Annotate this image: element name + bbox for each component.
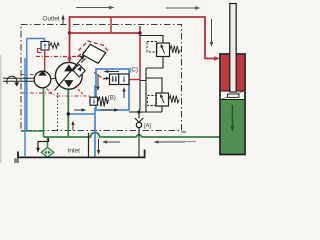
wire: arrow left inside box [104, 70, 120, 73]
wire: suction/inlet main line (green) [44, 133, 220, 138]
wire: down arrow to tank [97, 139, 100, 155]
wire: blue into valve B [94, 85, 96, 98]
node: outlet up arrow [61, 15, 64, 25]
wire: red tap below valve V1 [44, 50, 46, 72]
node: junction x140 [138, 31, 141, 34]
svg-text:Inlet: Inlet [68, 147, 81, 154]
wire: red arrow into cylinder cap end [214, 56, 220, 60]
wire: arrow down inside box [96, 74, 99, 91]
pump P2 (charge pump) [34, 70, 51, 88]
svg-text:(A): (A) [144, 124, 152, 130]
wire: blue charge feed y114 [68, 113, 95, 115]
svg-text:(C): (C) [130, 68, 138, 74]
wire: drain stub to tank [88, 133, 90, 157]
wire: down flow arrow near cylinder [210, 19, 213, 47]
wire: strainer feed [47, 137, 49, 148]
wire: suction up arrow [71, 121, 74, 131]
wire: red pilot dash-dot y74 [21, 74, 34, 76]
wire: red header y33 [70, 32, 141, 34]
wire: black continuation x140 to check valve junction [136, 80, 140, 112]
wire: case drain into tank with arrow [36, 138, 48, 153]
wire: relief 1 feed [140, 36, 163, 44]
wire: arrow up inside box [122, 87, 125, 98]
cylinder: rod-end flow arrow (green) [230, 105, 234, 132]
svg-text:(B): (B) [108, 96, 116, 102]
valve RV1 (relief valve) [147, 42, 180, 57]
wire: black link y80 [140, 80, 146, 82]
cylinder: barrel [220, 54, 245, 155]
wire: inlet flow arrow 1 [102, 140, 120, 143]
wire: red pilot dash-dot y57 with arrow [36, 49, 92, 57]
decor page corner shadow [14, 158, 19, 163]
wire: charge pump suction vertical [43, 87, 45, 137]
wire: blue drain line pair [24, 58, 26, 157]
drive shaft with rotation arrow [3, 76, 35, 84]
wire: arrow right on charge feed [74, 108, 87, 111]
node: junction on suction line [67, 112, 70, 115]
wire: red pilot dash-dot y95 [21, 93, 84, 96]
wire: pump outlet riser [69, 33, 71, 63]
wire: red dashed pilot over servo [79, 41, 109, 52]
decor scan line [166, 141, 196, 143]
wire: red dashed pilot valve B [75, 86, 90, 96]
wire: blue return to tank x95 [94, 108, 96, 157]
wire: red dashed pilot servo to valve C [94, 73, 105, 80]
control block boundary (blue box) [96, 69, 129, 110]
servo piston (stroking cylinder piston) [73, 64, 85, 77]
node: junction pump outlet [68, 31, 71, 34]
wire: blue feed to reducing valve [27, 39, 45, 42]
wire: inlet flow arrow 2 [154, 140, 186, 143]
check valve A [135, 112, 143, 157]
wire: main pump suction vertical [67, 89, 69, 137]
strainer S1 (suction filter diamond) [41, 148, 54, 158]
decor page edge [0, 55, 2, 163]
wire: main pressure line (red outlet loop to cylinder) [70, 17, 216, 59]
valve B (unloading valve) [90, 97, 108, 107]
servo piston arrow [77, 67, 81, 72]
valve C (2-position control valve) [110, 74, 130, 85]
servo actuator body [81, 59, 86, 63]
node: junction check valve [137, 110, 140, 113]
valve RV2 (relief valve) [148, 93, 180, 106]
wire: top flow arrow left [76, 6, 115, 10]
wire: relief 2 feed [146, 78, 162, 93]
wire: top flow arrow right [166, 6, 201, 10]
wire: pump coupling [51, 77, 56, 80]
wire: red loop left of V1 [38, 49, 42, 53]
valve V1 (charge relief, blue arrow) [41, 42, 59, 51]
wire: relief manifold x146 [145, 68, 147, 112]
wire: green stub to tank manifold [21, 130, 44, 132]
enclosure (pump unit dash-dot boundary) [21, 25, 186, 133]
tank outline [18, 150, 145, 158]
wire: relief 2 outlet [161, 106, 163, 112]
wire: red branch x111 [110, 17, 112, 33]
pump P1 (variable displacement main pump) [55, 55, 85, 91]
svg-text:Outlet: Outlet [43, 16, 60, 23]
wire: blue charge line vertical [26, 39, 28, 132]
wire: red main vertical x140 [139, 26, 141, 80]
wire: red link valve C to main [130, 79, 141, 81]
wire: case drain dotted [57, 93, 59, 131]
wire: relief 1 outlet [146, 57, 163, 69]
wire: arrow into valve C [104, 77, 111, 80]
wire: return header y112 [129, 111, 162, 113]
cylinder: piston rod [230, 4, 236, 93]
wire: arrow right on box bottom [101, 108, 119, 111]
